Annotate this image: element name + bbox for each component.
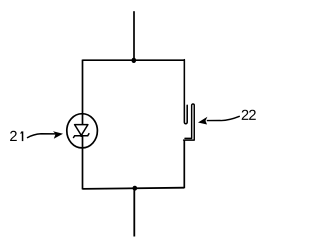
element 22: upper electrode wire ending in hairpin: [184, 60, 187, 124]
label 22 text: [242, 110, 256, 120]
wire: left vertical lower (diode bar to bottom corner): [82, 136, 84, 190]
node B: bottom junction dot: [133, 186, 138, 191]
leader arrow for label 21: [27, 131, 63, 138]
zener diode 21: triangle: [75, 125, 88, 136]
zener diode 21: cathode bar with bent ends: [74, 134, 89, 138]
wire: bottom horizontal: [82, 188, 184, 189]
wire: left vertical upper (top corner to diode triangle): [82, 60, 84, 125]
label 21 text: [10, 131, 22, 141]
wire: top supply lead: [133, 11, 135, 60]
wire: top horizontal: [82, 59, 184, 61]
zener diode 21: envelope circle: [67, 114, 98, 148]
zener diode 21: apex junction ink blob: [80, 134, 83, 137]
element 22: lower electrode double-line hook: [184, 104, 195, 140]
node A: top junction dot: [132, 58, 137, 63]
wire: right vertical lower (element 22 to bottom corner): [183, 140, 185, 189]
leader arrow for label 22: [198, 116, 240, 124]
wire: bottom lead: [133, 188, 135, 236]
